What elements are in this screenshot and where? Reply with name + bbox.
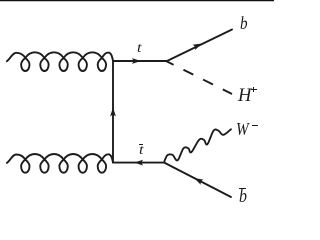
arrow on b line [193, 43, 202, 50]
arrow on t line [132, 58, 141, 64]
label H+ superscript plus (vertical bar) [253, 87, 254, 92]
label W [236, 120, 249, 138]
arrow on tbar line [134, 160, 143, 166]
label tbar (overline) [139, 144, 143, 145]
label W- superscript minus [252, 125, 258, 126]
wire: bbar quark line [164, 163, 231, 198]
label H [238, 87, 251, 106]
label bbar (overline) [239, 188, 246, 189]
wire: t-channel vertical top propagator [112, 61, 114, 163]
wire: top quark propagator t [113, 60, 167, 62]
wire: b quark line [167, 30, 232, 62]
wire: anti-top propagator tbar [113, 162, 164, 164]
label tbar (letter) [139, 144, 143, 158]
label H+ superscript plus (horizontal bar) [251, 89, 257, 90]
label b [240, 14, 248, 32]
top border rule [0, 0, 274, 2]
dashed line: charged Higgs H+ [166, 61, 232, 94]
wavy line: W- boson [164, 129, 231, 162]
gluon g1 (top incoming) [7, 52, 113, 71]
label t [137, 42, 141, 56]
gluon g2 (bottom incoming) [7, 154, 113, 173]
arrow on bbar line [194, 178, 203, 185]
arrow on vertical propagator [110, 107, 116, 116]
label bbar (letter) [239, 187, 247, 206]
